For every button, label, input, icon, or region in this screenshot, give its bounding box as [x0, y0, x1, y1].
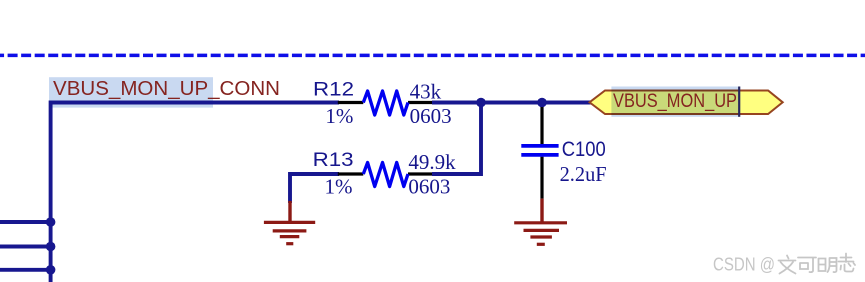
svg-text:CSDN @: CSDN @ — [713, 254, 775, 274]
svg-text:1%: 1% — [325, 104, 353, 128]
svg-text:0603: 0603 — [410, 104, 452, 128]
svg-text:C100: C100 — [562, 138, 606, 161]
svg-text:VBUS_MON_UP_CONN: VBUS_MON_UP_CONN — [53, 78, 280, 100]
svg-text:R12: R12 — [313, 79, 354, 100]
svg-text:43k: 43k — [410, 79, 442, 103]
svg-text:0603: 0603 — [408, 174, 450, 198]
svg-text:2.2uF: 2.2uF — [560, 162, 607, 186]
svg-text:VBUS_MON_UP: VBUS_MON_UP — [613, 91, 737, 112]
svg-text:49.9k: 49.9k — [408, 150, 456, 174]
svg-text:1%: 1% — [325, 174, 353, 198]
svg-text:R13: R13 — [313, 150, 354, 171]
